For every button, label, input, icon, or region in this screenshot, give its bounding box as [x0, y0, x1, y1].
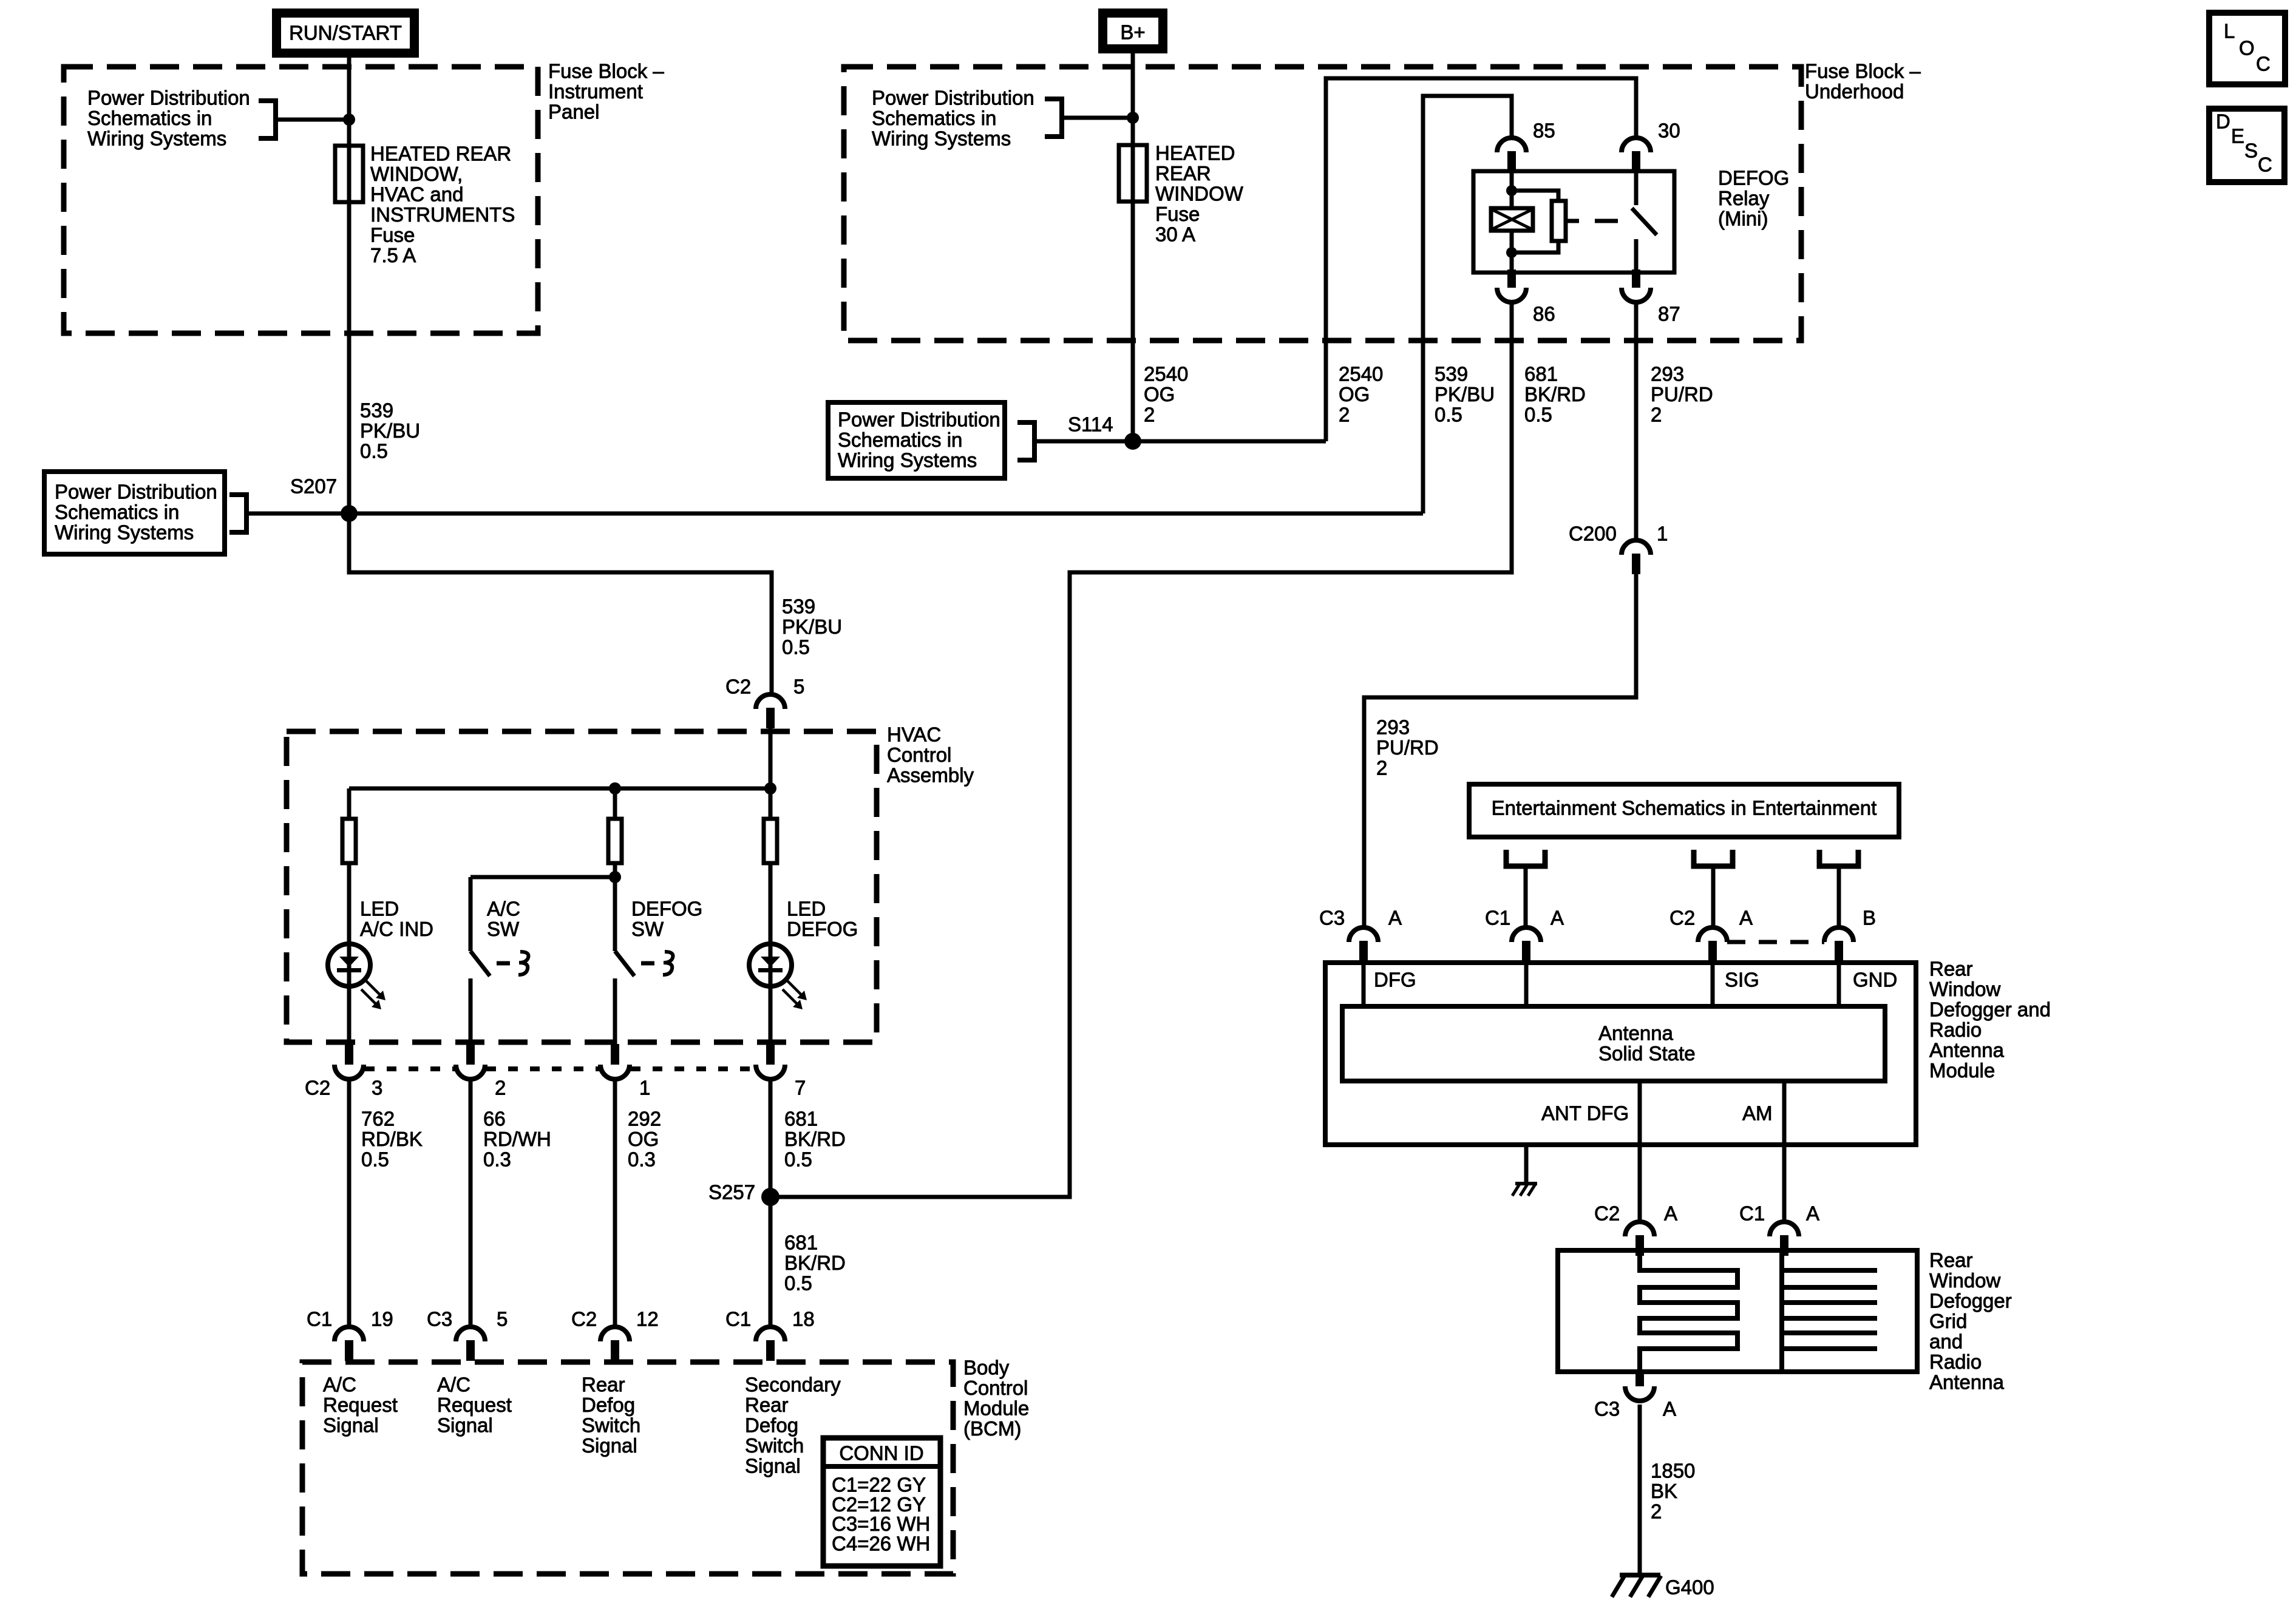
svg-text:A: A: [1664, 1202, 1677, 1225]
svg-text:0.5: 0.5: [360, 440, 388, 463]
svg-text:293: 293: [1376, 716, 1410, 739]
svg-text:SW: SW: [631, 918, 664, 940]
svg-text:A/C: A/C: [487, 898, 520, 920]
svg-text:PK/BU: PK/BU: [782, 615, 842, 638]
svg-text:5: 5: [497, 1308, 508, 1330]
svg-text:B+: B+: [1120, 21, 1145, 44]
svg-text:S: S: [2244, 140, 2258, 162]
svg-text:Rear: Rear: [1929, 1249, 1973, 1272]
svg-text:RUN/START: RUN/START: [289, 22, 402, 44]
svg-text:0.3: 0.3: [483, 1148, 511, 1171]
svg-text:7.5 A: 7.5 A: [370, 244, 416, 266]
svg-text:0.5: 0.5: [1524, 404, 1552, 426]
svg-text:Signal: Signal: [745, 1455, 801, 1477]
svg-text:681: 681: [784, 1232, 818, 1254]
svg-text:LED: LED: [787, 898, 826, 920]
svg-text:C2: C2: [725, 676, 751, 698]
svg-text:PK/BU: PK/BU: [360, 419, 420, 442]
svg-text:Defogger and: Defogger and: [1929, 998, 2051, 1021]
svg-text:A: A: [1388, 907, 1402, 929]
svg-text:Rear: Rear: [582, 1374, 625, 1396]
svg-text:5: 5: [793, 676, 804, 698]
svg-text:Schematics in: Schematics in: [872, 107, 996, 129]
svg-text:DEFOG: DEFOG: [1718, 167, 1789, 189]
svg-text:C3: C3: [1319, 907, 1345, 929]
svg-text:30 A: 30 A: [1155, 223, 1195, 246]
svg-text:(BCM): (BCM): [963, 1417, 1021, 1440]
svg-text:539: 539: [1435, 363, 1468, 385]
svg-text:Switch: Switch: [582, 1414, 640, 1437]
svg-text:OG: OG: [628, 1128, 659, 1150]
svg-text:Window: Window: [1929, 978, 2001, 1000]
svg-text:C3: C3: [1594, 1398, 1620, 1420]
svg-text:Defog: Defog: [745, 1414, 798, 1437]
svg-text:Schematics in: Schematics in: [838, 429, 962, 451]
svg-text:S207: S207: [290, 475, 337, 498]
svg-text:Solid State: Solid State: [1598, 1042, 1696, 1065]
svg-text:681: 681: [784, 1108, 818, 1130]
svg-text:D: D: [2216, 110, 2230, 133]
svg-text:L: L: [2224, 20, 2235, 42]
svg-text:Module: Module: [1929, 1059, 1995, 1082]
svg-text:OG: OG: [1339, 383, 1370, 405]
svg-text:Wiring Systems: Wiring Systems: [838, 449, 977, 472]
svg-text:DFG: DFG: [1374, 969, 1416, 991]
svg-text:2: 2: [1651, 404, 1662, 426]
svg-text:C: C: [2256, 53, 2271, 75]
svg-text:0.5: 0.5: [784, 1148, 812, 1171]
svg-text:S114: S114: [1068, 413, 1113, 436]
svg-text:AM: AM: [1742, 1102, 1773, 1125]
svg-text:Fuse Block –: Fuse Block –: [1805, 60, 1921, 83]
svg-text:Defogger: Defogger: [1929, 1290, 2012, 1312]
svg-text:Relay: Relay: [1718, 187, 1770, 209]
svg-text:RD/BK: RD/BK: [361, 1128, 423, 1150]
svg-text:Panel: Panel: [548, 101, 599, 123]
svg-text:12: 12: [636, 1308, 659, 1330]
svg-text:PU/RD: PU/RD: [1376, 736, 1439, 759]
svg-text:C2: C2: [571, 1308, 597, 1330]
svg-text:1850: 1850: [1651, 1460, 1695, 1482]
svg-text:C3: C3: [427, 1308, 452, 1330]
svg-text:18: 18: [792, 1308, 815, 1330]
svg-text:Fuse Block –: Fuse Block –: [548, 60, 664, 83]
svg-text:Entertainment Schematics in En: Entertainment Schematics in Entertainmen…: [1492, 797, 1877, 819]
svg-text:BK/RD: BK/RD: [784, 1128, 846, 1150]
svg-text:Switch: Switch: [745, 1434, 804, 1457]
svg-text:1: 1: [1657, 523, 1668, 545]
svg-text:A/C: A/C: [437, 1374, 470, 1396]
svg-text:LED: LED: [360, 898, 399, 920]
svg-text:2: 2: [495, 1077, 506, 1099]
svg-text:2: 2: [1376, 757, 1387, 779]
svg-text:Request: Request: [437, 1394, 512, 1416]
svg-text:86: 86: [1533, 303, 1555, 325]
svg-text:681: 681: [1524, 363, 1558, 385]
svg-text:A: A: [1739, 907, 1753, 929]
svg-text:1: 1: [639, 1077, 650, 1099]
svg-text:2: 2: [1144, 404, 1155, 426]
svg-text:0.5: 0.5: [361, 1148, 389, 1171]
svg-text:7: 7: [795, 1077, 806, 1099]
svg-text:Signal: Signal: [582, 1434, 637, 1457]
svg-text:A: A: [1550, 907, 1564, 929]
svg-text:Assembly: Assembly: [887, 764, 974, 787]
svg-text:Rear: Rear: [1929, 958, 1973, 980]
svg-text:Module: Module: [963, 1397, 1029, 1420]
svg-text:Secondary: Secondary: [745, 1374, 841, 1396]
svg-text:B: B: [1863, 907, 1876, 929]
svg-text:C1: C1: [307, 1308, 332, 1330]
svg-text:Window: Window: [1929, 1269, 2001, 1292]
svg-text:Rear: Rear: [745, 1394, 789, 1416]
svg-text:RD/WH: RD/WH: [483, 1128, 551, 1150]
svg-text:SIG: SIG: [1725, 969, 1759, 991]
svg-text:2: 2: [1651, 1500, 1662, 1523]
svg-text:539: 539: [360, 399, 393, 422]
svg-text:(Mini): (Mini): [1718, 208, 1768, 230]
svg-text:OG: OG: [1144, 383, 1175, 405]
svg-text:2540: 2540: [1339, 363, 1383, 385]
svg-text:85: 85: [1533, 120, 1555, 142]
svg-text:Power Distribution: Power Distribution: [55, 481, 217, 503]
svg-text:Fuse: Fuse: [370, 224, 415, 246]
svg-text:C2: C2: [1669, 907, 1695, 929]
svg-text:PU/RD: PU/RD: [1651, 383, 1713, 405]
svg-text:Schematics in: Schematics in: [87, 107, 212, 129]
svg-text:Control: Control: [887, 744, 951, 766]
svg-text:Power Distribution: Power Distribution: [87, 87, 250, 109]
svg-text:Fuse: Fuse: [1155, 203, 1200, 225]
svg-text:REAR: REAR: [1155, 162, 1211, 185]
svg-text:SW: SW: [487, 918, 520, 940]
svg-text:A/C IND: A/C IND: [360, 918, 433, 940]
svg-text:Instrument: Instrument: [548, 80, 643, 103]
svg-text:CONN ID: CONN ID: [839, 1442, 923, 1465]
svg-text:Wiring Systems: Wiring Systems: [872, 127, 1011, 150]
svg-text:Antenna: Antenna: [1929, 1039, 2005, 1062]
svg-text:Underhood: Underhood: [1805, 80, 1904, 103]
svg-text:C1: C1: [1485, 907, 1510, 929]
svg-text:HVAC: HVAC: [887, 724, 941, 746]
svg-text:87: 87: [1658, 303, 1680, 325]
svg-text:292: 292: [628, 1108, 661, 1130]
svg-text:BK/RD: BK/RD: [1524, 383, 1586, 405]
svg-text:Control: Control: [963, 1377, 1028, 1399]
svg-text:O: O: [2239, 37, 2255, 59]
svg-text:C1: C1: [725, 1308, 751, 1330]
svg-text:C4=26 WH: C4=26 WH: [832, 1532, 930, 1554]
svg-text:WINDOW,: WINDOW,: [370, 163, 463, 185]
svg-text:HVAC and: HVAC and: [370, 183, 463, 206]
svg-text:Antenna: Antenna: [1598, 1022, 1674, 1045]
svg-text:BK/RD: BK/RD: [784, 1252, 846, 1274]
svg-text:ANT DFG: ANT DFG: [1541, 1102, 1629, 1125]
svg-text:539: 539: [782, 595, 815, 618]
svg-text:0.5: 0.5: [782, 636, 810, 659]
svg-text:PK/BU: PK/BU: [1435, 383, 1495, 405]
svg-text:A: A: [1663, 1398, 1676, 1420]
svg-text:Body: Body: [963, 1357, 1010, 1379]
svg-text:30: 30: [1658, 120, 1680, 142]
svg-text:Request: Request: [323, 1394, 398, 1416]
svg-text:0.5: 0.5: [1435, 404, 1462, 426]
svg-text:762: 762: [361, 1108, 395, 1130]
svg-text:Defog: Defog: [582, 1394, 635, 1416]
svg-text:C1: C1: [1739, 1202, 1765, 1225]
svg-text:Power Distribution: Power Distribution: [872, 87, 1034, 109]
svg-text:2: 2: [1339, 404, 1350, 426]
svg-text:WINDOW: WINDOW: [1155, 183, 1244, 205]
svg-text:G400: G400: [1665, 1576, 1714, 1599]
svg-text:293: 293: [1651, 363, 1684, 385]
svg-text:Schematics in: Schematics in: [55, 501, 179, 523]
svg-text:A/C: A/C: [323, 1374, 356, 1396]
svg-text:19: 19: [371, 1308, 393, 1330]
svg-text:HEATED: HEATED: [1155, 142, 1235, 164]
svg-text:DEFOG: DEFOG: [631, 898, 702, 920]
svg-text:C2: C2: [305, 1077, 330, 1099]
svg-text:Signal: Signal: [323, 1414, 379, 1437]
svg-text:BK: BK: [1651, 1480, 1677, 1502]
svg-text:2540: 2540: [1144, 363, 1188, 385]
svg-text:C2: C2: [1594, 1202, 1620, 1225]
svg-text:0.5: 0.5: [784, 1272, 812, 1295]
svg-text:and: and: [1929, 1330, 1963, 1353]
svg-text:66: 66: [483, 1108, 506, 1130]
svg-text:GND: GND: [1853, 969, 1897, 991]
svg-text:C: C: [2258, 154, 2272, 176]
svg-text:C200: C200: [1569, 523, 1617, 545]
svg-text:Radio: Radio: [1929, 1351, 1982, 1373]
svg-text:Wiring Systems: Wiring Systems: [87, 127, 226, 150]
svg-text:3: 3: [372, 1077, 382, 1099]
svg-text:A: A: [1806, 1202, 1819, 1225]
svg-text:0.3: 0.3: [628, 1148, 656, 1171]
svg-text:S257: S257: [708, 1181, 755, 1204]
svg-text:E: E: [2231, 125, 2244, 147]
svg-text:HEATED REAR: HEATED REAR: [370, 143, 511, 165]
svg-text:Antenna: Antenna: [1929, 1371, 2005, 1394]
svg-text:Signal: Signal: [437, 1414, 493, 1437]
svg-text:Wiring Systems: Wiring Systems: [55, 521, 194, 544]
svg-text:Power Distribution: Power Distribution: [838, 408, 1000, 431]
svg-text:INSTRUMENTS: INSTRUMENTS: [370, 203, 515, 226]
svg-text:DEFOG: DEFOG: [787, 918, 858, 940]
svg-text:Grid: Grid: [1929, 1310, 1967, 1332]
svg-text:Radio: Radio: [1929, 1018, 1982, 1041]
